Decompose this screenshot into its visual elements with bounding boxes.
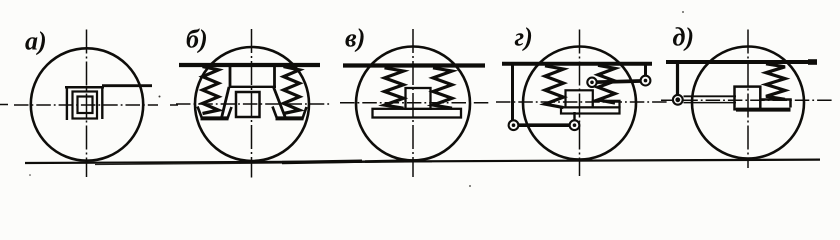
ground second line: [95, 162, 432, 165]
pedestal left slant b: [222, 87, 230, 118]
horizontal centerline a left tick: [0, 104, 8, 106]
pedestal bracket top a: [65, 86, 104, 89]
spring seat b right bottom: [276, 116, 304, 120]
svg-text:в): в): [345, 24, 365, 53]
frame rail b: [179, 63, 320, 67]
wheel circle g: [523, 47, 636, 160]
base plate v: [373, 109, 462, 118]
wheel circle d: [692, 47, 804, 159]
paper background: [0, 0, 840, 191]
spring g right: [598, 65, 615, 103]
svg-text:а): а): [25, 27, 47, 56]
pedestal bracket left leg a: [66, 86, 68, 120]
base plate g: [561, 107, 620, 113]
wheel circle b: [195, 47, 309, 161]
frame rail a: [102, 84, 152, 87]
pedestal left vertical b: [229, 67, 232, 87]
radius link hanger d: [676, 62, 679, 95]
ground smudge 2: [365, 160, 418, 161]
paper specks: [29, 11, 684, 187]
pedestal cap b: [229, 86, 276, 88]
axle box b: [236, 92, 260, 117]
bottom lever g: [511, 123, 577, 127]
upper lever g: [590, 81, 648, 83]
pivot g bottom-right: [570, 120, 580, 130]
ground line: [25, 160, 820, 163]
step ledge g: [593, 101, 620, 108]
pivot g upper-left: [587, 78, 596, 87]
spring b right: [284, 67, 300, 114]
spring d: [766, 64, 785, 100]
pivot g bottom-left: [509, 120, 519, 130]
spring v right: [433, 68, 452, 108]
ground smudge: [282, 161, 362, 162]
frame rail end blob d: [808, 59, 817, 65]
radius rod top edge d: [684, 95, 737, 97]
spring v left: [385, 68, 404, 108]
link stub g: [573, 112, 575, 121]
horizontal centerline a: [14, 104, 158, 106]
pedestal right slant b: [274, 87, 286, 118]
spring seat b left bottom: [201, 116, 229, 120]
vertical centerline d: [747, 30, 749, 169]
pivot d: [673, 95, 683, 105]
svg-text:д): д): [673, 23, 695, 52]
spring seat b left: [198, 107, 232, 119]
radius rod bottom edge d: [684, 102, 737, 104]
frame rail d: [666, 60, 817, 64]
pedestal bracket right leg a: [101, 87, 103, 119]
svg-text:г): г): [515, 23, 533, 52]
horizontal centerline g: [496, 101, 668, 103]
horizontal centerline b: [176, 103, 331, 105]
vertical centerline b: [251, 29, 253, 178]
spring b left: [203, 67, 219, 114]
wheel circle v: [356, 47, 470, 161]
vertical centerline g: [579, 30, 581, 177]
swing hanger g: [511, 64, 514, 124]
spring seat b right: [273, 107, 307, 119]
vertical centerline v: [412, 29, 414, 177]
axle box outer a: [73, 92, 98, 119]
horizontal centerline v: [340, 102, 489, 104]
axle box d: [735, 87, 761, 110]
vertical centerline a: [86, 30, 88, 178]
axle box block g: [566, 90, 593, 107]
horizontal centerline d: [661, 99, 833, 101]
frame rail v: [343, 63, 485, 67]
axle box inner a: [78, 97, 93, 114]
axle box block v: [406, 88, 431, 109]
spring g left: [545, 66, 564, 108]
svg-text:б): б): [186, 25, 208, 54]
frame rail g: [502, 62, 652, 66]
pivot g upper-right: [641, 76, 651, 86]
upper link g: [644, 63, 647, 76]
base bottom d: [736, 108, 791, 112]
step ledge d: [760, 100, 790, 108]
wheel circle a: [31, 48, 143, 160]
horizontal centerline a tail: [170, 104, 178, 106]
pedestal right vertical b: [273, 67, 276, 87]
